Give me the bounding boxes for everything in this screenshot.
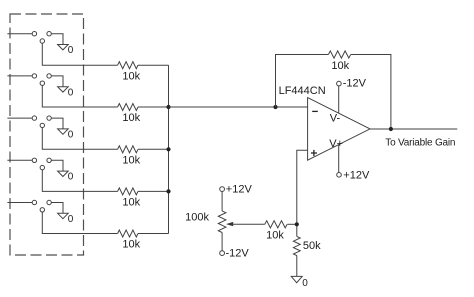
resistor R1 10k	[118, 62, 138, 69]
svg-text:+12V: +12V	[226, 183, 253, 195]
summing bus wire	[168, 65, 170, 233]
wire S2 throw to ground	[51, 76, 63, 87]
switch S3	[32, 116, 51, 128]
svg-text:0: 0	[68, 130, 74, 141]
wire pot bottom	[221, 233, 223, 251]
label -12V (op-amp)	[343, 78, 367, 90]
label 0 (S3)	[68, 130, 74, 141]
svg-text:-12V: -12V	[226, 247, 250, 259]
svg-text:V-: V-	[330, 113, 341, 125]
label 100k	[185, 212, 209, 224]
wire S1 throw to ground	[51, 34, 63, 45]
wire pot top	[221, 192, 223, 211]
wire U1 non-inverting input	[297, 150, 308, 236]
wire R7 to junction	[287, 223, 296, 225]
terminal -12V	[337, 81, 342, 86]
wire S1 common to R1	[42, 43, 117, 65]
ground 0 (S3)	[58, 129, 69, 134]
switch S2	[32, 74, 51, 86]
svg-text:0: 0	[68, 45, 74, 56]
svg-text:100k: 100k	[185, 212, 209, 224]
junction bus/R3	[166, 147, 170, 151]
label 0 (S4)	[68, 172, 74, 183]
label 10k (R3)	[122, 155, 140, 167]
ground 0 (bottom)	[291, 276, 302, 282]
svg-text:0: 0	[302, 278, 308, 289]
wire R2 to bus	[138, 106, 169, 108]
svg-text:50k: 50k	[303, 240, 321, 252]
output wire	[370, 128, 457, 130]
junction bus/R2	[166, 105, 170, 109]
svg-text:10k: 10k	[122, 239, 140, 251]
wire S5 common to R5	[42, 212, 117, 234]
wire S5 throw to ground	[51, 203, 63, 214]
svg-text:10k: 10k	[122, 197, 140, 209]
label 0 (S1)	[68, 45, 74, 56]
feedback wire right	[351, 55, 391, 130]
wiper arrow	[226, 222, 233, 226]
label +12V (op-amp)	[343, 169, 370, 181]
svg-text:10k: 10k	[122, 112, 140, 124]
wire S3 common to R3	[42, 128, 117, 150]
potentiometer 100k terminal +12V	[220, 187, 225, 192]
junction wiper/input/50k	[295, 222, 299, 226]
svg-text:+12V: +12V	[343, 169, 370, 181]
label -12V (pot)	[226, 247, 250, 259]
switch S5 input wire	[7, 202, 32, 204]
label 10k (R6)	[331, 60, 349, 72]
resistor R8 50k	[293, 236, 300, 255]
junction bus/R4	[166, 189, 170, 193]
ground 0 (S1)	[58, 45, 69, 50]
svg-text:-12V: -12V	[343, 78, 367, 90]
non-inverting input marker +	[311, 150, 317, 156]
ground 0 (S4)	[58, 171, 69, 176]
wire bus to U1 inverting input	[169, 106, 308, 108]
svg-text:10k: 10k	[331, 60, 349, 72]
label 10k (R2)	[122, 112, 140, 124]
label 10k (R1)	[122, 70, 140, 82]
wire S4 common to R4	[42, 170, 117, 192]
ground 0 (S2)	[58, 87, 69, 92]
label 0 (bottom)	[302, 278, 308, 289]
svg-text:10k: 10k	[122, 70, 140, 82]
wire R8 to ground	[296, 255, 298, 276]
label +12V (pot)	[226, 183, 253, 195]
label 50k	[303, 240, 321, 252]
label To Variable Gain	[385, 137, 455, 148]
resistor R7 10k	[265, 221, 287, 228]
resistor R5 10k	[118, 230, 138, 237]
dashed enclosure box	[10, 14, 84, 255]
switch S1 input wire	[7, 33, 32, 35]
svg-text:10k: 10k	[122, 155, 140, 167]
resistor R6 10k feedback	[328, 51, 350, 58]
label V+ pin	[329, 138, 343, 150]
wire R1 to bus	[138, 64, 169, 66]
switch S1	[32, 32, 51, 44]
svg-text:0: 0	[68, 214, 74, 225]
label V- pin	[330, 113, 341, 125]
feedback wire left	[276, 55, 329, 108]
resistor R2 10k	[118, 104, 138, 111]
wire S4 throw to ground	[51, 160, 63, 171]
ground 0 (S5)	[58, 213, 69, 218]
label 10k (R5)	[122, 239, 140, 251]
potentiometer 100k body	[218, 211, 226, 233]
label 0 (S5)	[68, 214, 74, 225]
wire R5 to bus	[138, 233, 169, 235]
label 10k (R4)	[122, 197, 140, 209]
V+ supply wire	[338, 145, 340, 173]
wire wiper to R7	[231, 223, 265, 225]
wire S3 throw to ground	[51, 118, 63, 129]
wire S2 common to R2	[42, 85, 117, 107]
junction feedback/input	[273, 105, 277, 109]
resistor R4 10k	[118, 188, 138, 195]
terminal +12V	[337, 173, 342, 178]
wire R4 to bus	[138, 190, 169, 192]
svg-text:To Variable Gain: To Variable Gain	[385, 137, 455, 148]
label 0 (S2)	[68, 87, 74, 98]
svg-text:LF444CN: LF444CN	[279, 85, 326, 97]
label 10k (R7)	[266, 230, 284, 242]
inverting input marker -	[312, 110, 318, 112]
switch S5	[32, 200, 51, 212]
op-amp U1 LF444CN	[308, 98, 370, 161]
svg-text:0: 0	[68, 172, 74, 183]
switch S4 input wire	[7, 159, 32, 161]
switch S2 input wire	[7, 75, 32, 77]
potentiometer 100k terminal -12V	[220, 251, 225, 256]
svg-text:0: 0	[68, 87, 74, 98]
wire R3 to bus	[138, 148, 169, 150]
svg-text:10k: 10k	[266, 230, 284, 242]
switch S4	[32, 158, 51, 170]
resistor R3 10k	[118, 146, 138, 153]
V- supply wire	[338, 86, 340, 113]
label LF444CN	[279, 85, 326, 97]
switch S3 input wire	[7, 117, 32, 119]
svg-text:V+: V+	[329, 138, 343, 150]
junction output/feedback	[389, 127, 393, 131]
